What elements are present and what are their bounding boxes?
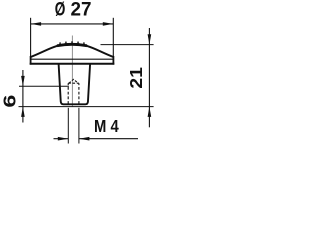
dimension Ø27 line	[31, 23, 114, 25]
svg-text:21: 21	[126, 67, 146, 89]
head dome arc	[31, 44, 114, 57]
dimension Ø27 left extension line	[30, 18, 32, 56]
thread M4 left arrowhead	[58, 137, 69, 141]
dimension Ø27 right arrowhead	[103, 22, 114, 26]
head right edge	[112, 56, 114, 65]
head left edge	[30, 56, 32, 65]
thread M4 left extension line	[67, 108, 69, 144]
dimension 6 line	[22, 70, 24, 123]
hidden tapped hole - right dashed line	[78, 83, 80, 104]
dimension 21 line	[148, 28, 150, 127]
centerline (part axis)	[71, 36, 73, 108]
thread M4 left leader line	[54, 138, 69, 140]
dimension 6 top extension line	[19, 85, 69, 87]
knurl tick marks on dome	[60, 41, 84, 45]
dimension 6 bottom arrowhead	[21, 107, 25, 117]
dimension Ø27 left arrowhead	[31, 22, 41, 26]
thread M4 right arrowhead	[79, 137, 90, 141]
thread M4 right leader line	[79, 138, 138, 140]
dimension 6 top arrowhead	[21, 76, 25, 86]
dimension 21 top extension line	[101, 44, 154, 46]
svg-text:27: 27	[71, 0, 92, 21]
svg-text:M 4: M 4	[94, 116, 119, 136]
hidden drill cone	[69, 79, 78, 83]
head rim top line	[31, 58, 114, 60]
svg-text:6: 6	[0, 94, 20, 107]
svg-text:Ø: Ø	[55, 0, 66, 21]
dimension 21 bottom arrowhead	[148, 107, 152, 117]
hidden tapped hole - left dashed line	[67, 83, 69, 104]
bottom extension line (shared by 6 and 21)	[19, 106, 154, 108]
thread M4 right extension line	[78, 108, 80, 144]
head bottom line	[30, 63, 115, 65]
shank (hub) outline	[59, 64, 91, 105]
hidden hole flat cap	[68, 82, 79, 84]
dome apex thick band	[57, 44, 87, 45]
dimension 21 top arrowhead	[148, 34, 152, 44]
dimension Ø27 right extension line	[112, 18, 114, 56]
